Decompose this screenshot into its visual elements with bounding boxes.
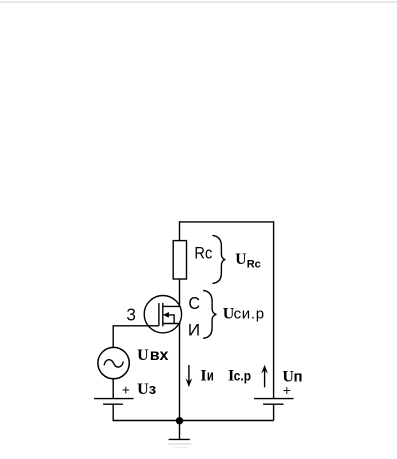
battery Uп negative plate (263, 403, 284, 405)
current arrow Iс.р shaft (264, 369, 266, 387)
svg-text:Rc: Rc (247, 259, 261, 271)
battery Uп positive plate (254, 398, 294, 400)
svg-text:З: З (126, 305, 136, 325)
junction node dot (176, 417, 183, 424)
svg-text:с.р: с.р (234, 368, 251, 384)
svg-text:и: и (207, 367, 214, 384)
transistor source stub (163, 323, 181, 325)
svg-text:С: С (188, 293, 200, 313)
label Uси.р (223, 306, 265, 323)
AC source Uвх circle (98, 347, 129, 378)
battery Uз negative plate (103, 403, 123, 405)
transistor substrate lead (167, 315, 174, 324)
wire source down to bottom node (179, 324, 181, 421)
wire top (180, 221, 274, 223)
svg-text:U: U (137, 347, 149, 364)
svg-text:I: I (200, 368, 206, 385)
svg-text:п: п (294, 369, 303, 386)
svg-text:Rc: Rc (194, 244, 212, 262)
svg-text:вх: вх (150, 347, 169, 364)
wire battery Uз to bottom (112, 404, 114, 420)
label Uвх (137, 347, 168, 364)
ground stub (179, 421, 181, 439)
ground bar (169, 438, 190, 440)
svg-text:си.р: си.р (234, 306, 265, 323)
AC source sine symbol (104, 360, 123, 367)
label Uз (137, 381, 156, 398)
brace for Uси.р (203, 290, 216, 338)
wire gate lead (113, 326, 159, 348)
wire bottom (113, 420, 274, 422)
current arrow Iс.р head (261, 365, 268, 374)
label Uп (282, 369, 302, 386)
brace for URc (212, 235, 225, 283)
current arrow Iи head (186, 378, 193, 387)
transistor drain stub (163, 305, 181, 307)
wire AC source to battery Uз (112, 379, 114, 398)
wire resistor to drain (179, 279, 181, 306)
label URc (235, 251, 261, 270)
wire drain top (179, 221, 181, 240)
svg-text:U: U (235, 251, 246, 268)
transistor gate electrode (158, 303, 160, 326)
resistor Rc (173, 241, 212, 279)
svg-text:з: з (149, 381, 156, 398)
label Iи (200, 367, 213, 385)
svg-text:U: U (137, 381, 149, 398)
svg-text:+: + (122, 382, 130, 397)
label Iс.р (228, 368, 251, 385)
wire right vertical (273, 221, 275, 398)
transistor channel (162, 303, 164, 326)
transistor substrate arrow head (163, 312, 169, 318)
ground faint bar 3 (172, 446, 188, 448)
ground faint bar 2 (168, 443, 191, 445)
svg-text:И: И (188, 321, 200, 340)
current arrow Iи shaft (188, 365, 190, 383)
battery Uз positive plate (94, 398, 134, 400)
wire battery Uп to bottom (273, 404, 275, 420)
transistor VT1 (MOSFET) circle (144, 296, 181, 333)
